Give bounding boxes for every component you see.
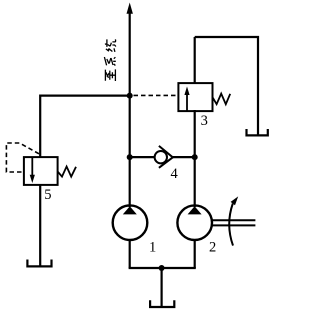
- node J1 junction on supply line: [127, 93, 133, 99]
- pump P1 outlet triangle: [123, 206, 137, 214]
- svg-text:2: 2: [209, 239, 216, 255]
- wire top-right elbow to tank: [195, 37, 258, 135]
- pump P2 shaft double line: [212, 219, 256, 221]
- node J2 junction check-valve left: [127, 154, 133, 160]
- pilot dashed line to valve 3: [134, 94, 179, 96]
- wire check valve line left segment: [130, 156, 156, 158]
- text char 系 middle: [104, 57, 115, 66]
- tank symbol top right: [247, 129, 268, 135]
- wire below valve 5 to tank: [39, 185, 41, 267]
- wire pump1 bottom: [129, 240, 131, 268]
- wire down to bottom tank: [161, 268, 163, 307]
- wire bottom horizontal joining pumps: [129, 267, 196, 269]
- relief valve V5 body: [24, 157, 58, 185]
- wire right branch vertical pump2 to valve 3: [194, 110, 196, 207]
- text 至系统 (to system), rotated, drawn as strokes: char 统 top: [105, 39, 116, 52]
- wire check valve line right segment: [173, 156, 195, 158]
- pump P1 circle: [113, 205, 148, 240]
- wire pump2 bottom: [194, 240, 196, 268]
- pilot dashed line of valve 5: [6, 143, 39, 172]
- wire upper horizontal to left branch: [40, 94, 130, 96]
- arrow inside valve 3 (up): [186, 94, 188, 111]
- wire left branch vertical down to valve 5: [39, 95, 41, 159]
- tank symbol bottom: [150, 300, 174, 307]
- wire above valve 3: [194, 37, 196, 84]
- pump P2 outlet triangle: [188, 206, 202, 214]
- node J4 bottom junction: [159, 265, 165, 271]
- node J3 junction check-valve right: [192, 154, 198, 160]
- arrow to system at top: [127, 3, 133, 14]
- svg-text:3: 3: [201, 113, 208, 129]
- svg-text:1: 1: [149, 240, 156, 256]
- svg-text:4: 4: [170, 166, 178, 182]
- pump P2 rotation arrow arc: [229, 204, 233, 246]
- tank symbol under valve 5: [27, 260, 51, 267]
- pump P2 circle: [177, 205, 212, 240]
- spring of valve 5: [58, 167, 76, 177]
- arrow inside valve 5 (down): [31, 158, 33, 177]
- check valve C4 seat: [159, 146, 173, 168]
- spring of valve 3: [213, 94, 231, 105]
- check valve C4 ball: [155, 151, 167, 163]
- relief valve V3 body: [178, 83, 212, 111]
- text char 至 bottom: [105, 69, 115, 81]
- wire main supply vertical line: [129, 12, 131, 207]
- svg-text:5: 5: [44, 187, 51, 203]
